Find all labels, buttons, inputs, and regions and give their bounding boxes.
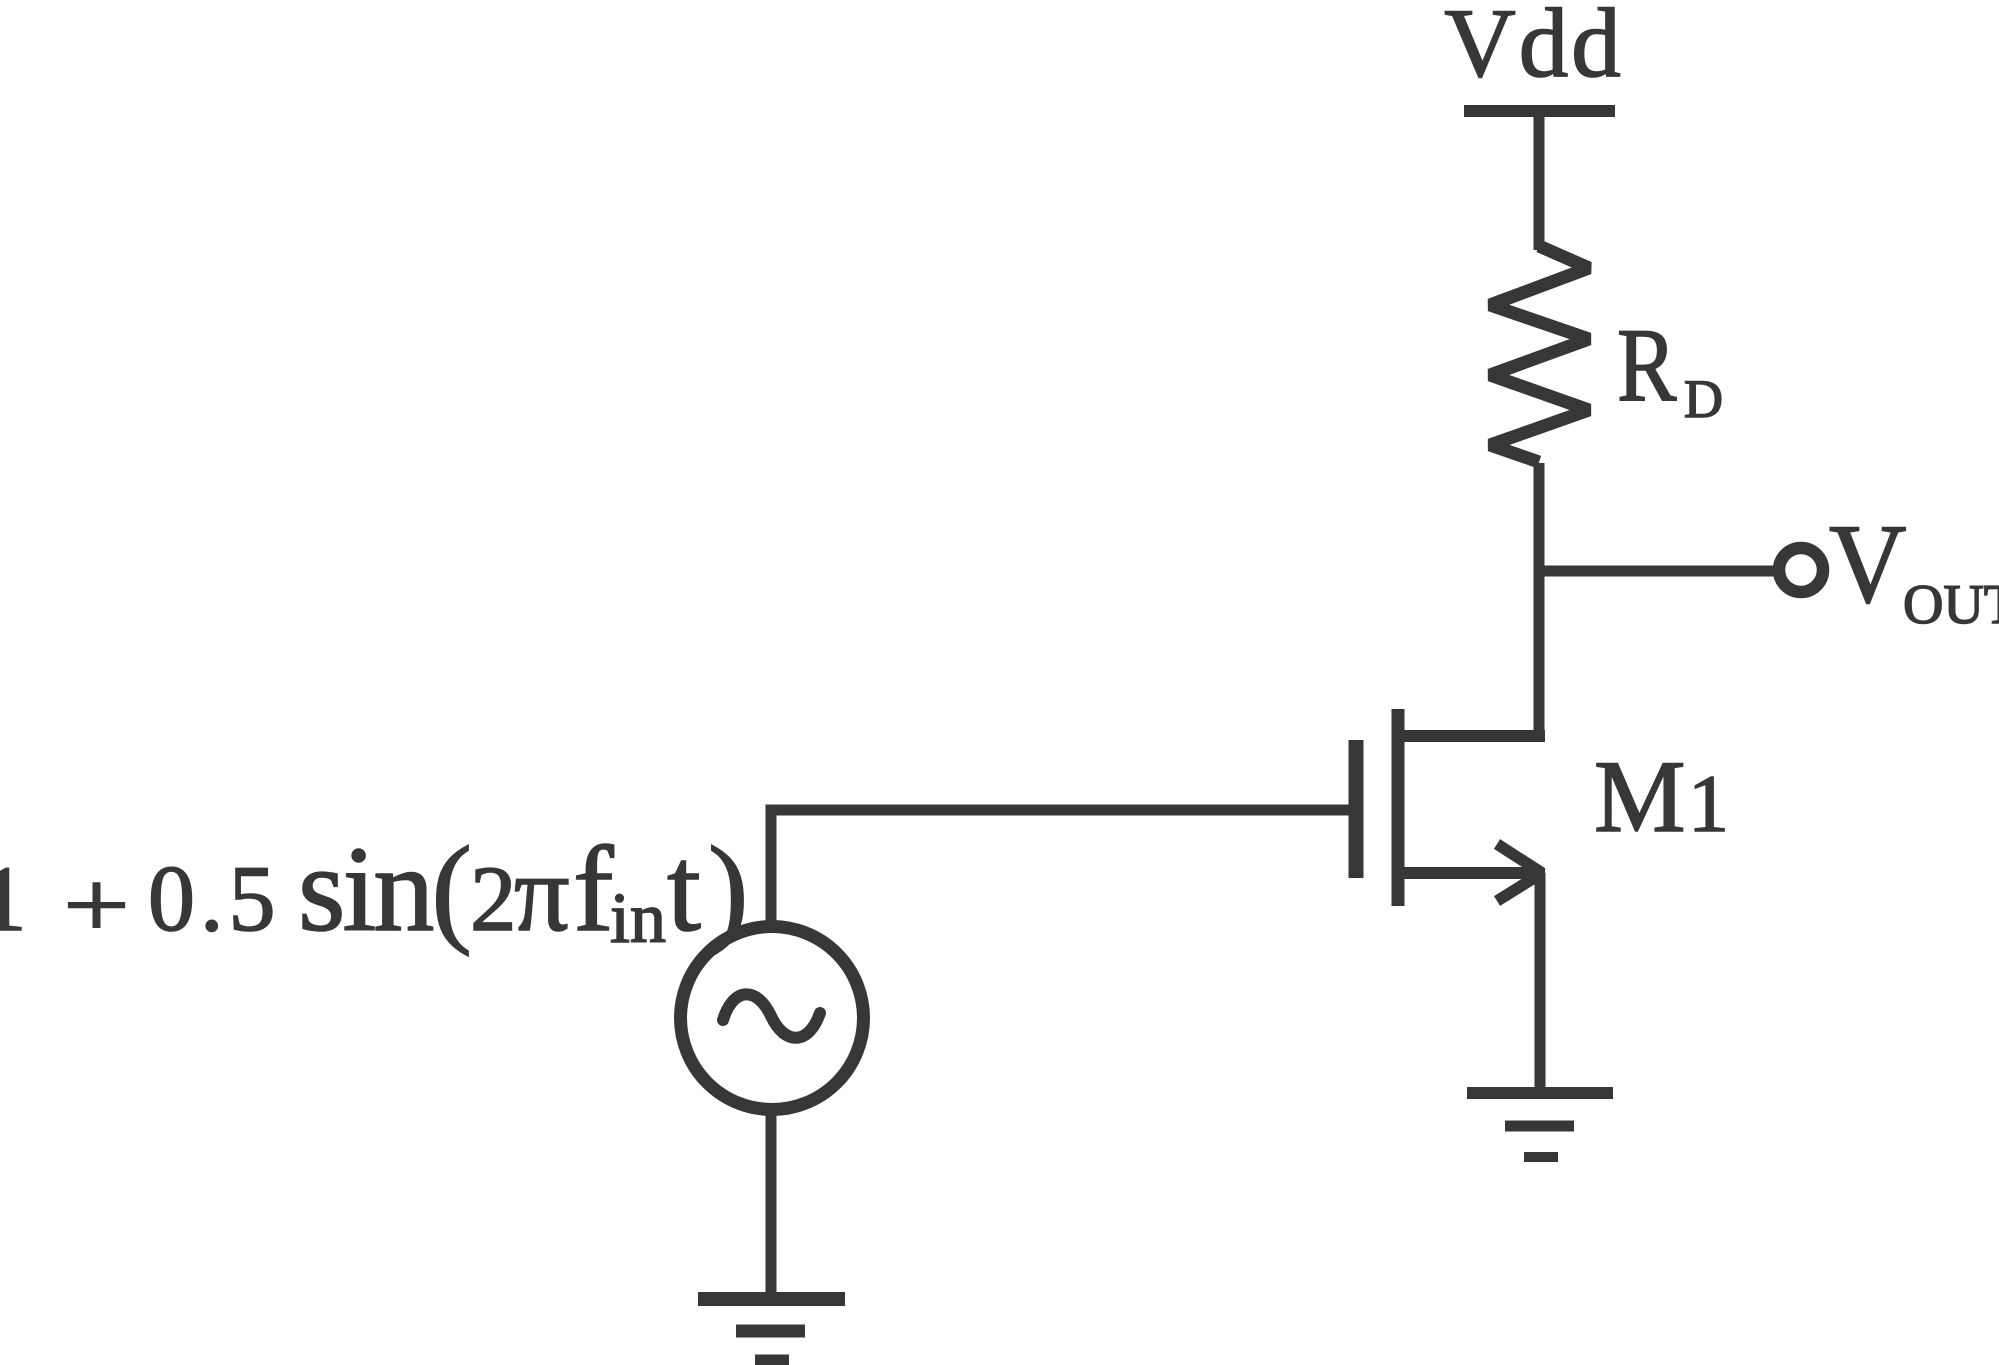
wire output node to terminal (1539, 566, 1774, 577)
transistor M1 channel bar (1392, 709, 1405, 906)
label RD (1617, 307, 1723, 429)
wire drain connection (1398, 730, 1545, 742)
svg-text:R: R (1617, 307, 1677, 423)
svg-text:D: D (1684, 369, 1723, 429)
label VOUT (1829, 502, 1999, 636)
Vdd power rail (1464, 105, 1615, 117)
wire source connection (1398, 867, 1543, 879)
sine symbol inside source (723, 994, 820, 1037)
svg-text:2: 2 (470, 848, 517, 951)
voltage source Vin circle (681, 927, 864, 1110)
svg-text:M: M (1594, 740, 1686, 854)
svg-text:π: π (514, 832, 570, 954)
wire source down to ground (1535, 873, 1546, 1091)
svg-text:sin(: sin( (298, 822, 469, 957)
svg-text:Vdd: Vdd (1444, 0, 1624, 98)
transistor M1 source arrow (1497, 844, 1542, 901)
wire source circle to ground (766, 1110, 777, 1299)
label M1 (1594, 740, 1729, 854)
ground (below Vin source) (698, 1292, 845, 1306)
ground (below M1 source) (1467, 1087, 1613, 1099)
svg-text:1: 1 (1688, 758, 1729, 849)
svg-text:1: 1 (0, 848, 27, 951)
svg-text:t): t) (667, 822, 756, 957)
output terminal circle (1779, 548, 1823, 592)
svg-text:OUT: OUT (1903, 574, 1999, 636)
wire Vdd rail to resistor (1534, 111, 1545, 250)
svg-text:0.5: 0.5 (148, 847, 281, 951)
svg-text:in: in (610, 878, 666, 958)
transistor M1 gate bar (1349, 740, 1364, 878)
resistor RD zigzag (1490, 246, 1589, 462)
label Vin formula 1 + 0.5 sin(2pi f_in t) (0, 822, 756, 958)
svg-text:+: + (63, 853, 130, 958)
svg-text:V: V (1829, 502, 1907, 627)
wire resistor to drain node (1534, 463, 1545, 736)
svg-text:f: f (573, 822, 614, 957)
wire gate (horizontal + corner down to source) (771, 810, 1350, 921)
